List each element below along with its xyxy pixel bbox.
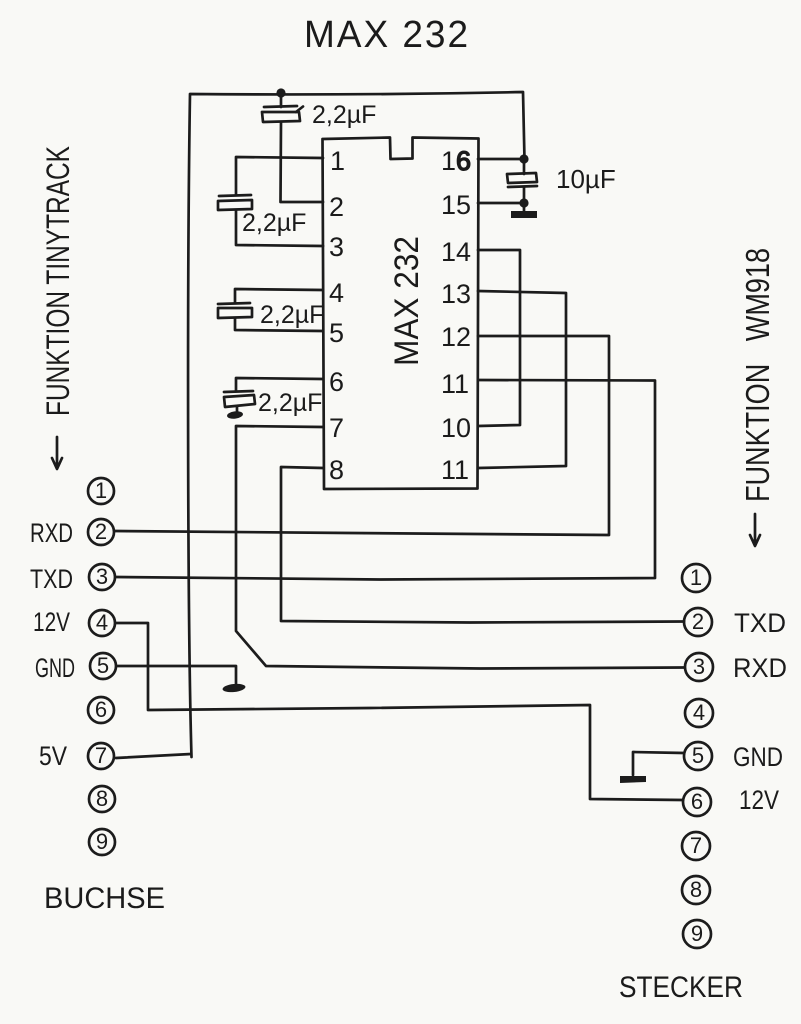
left connector pin 4 [89,610,115,636]
left connector pin 1 [88,478,114,504]
svg-text:8: 8 [329,455,344,485]
svg-text:3: 3 [693,654,705,679]
arrow right down [750,514,760,546]
wire pin 6 to C4 [236,378,323,391]
right connector pin 9 [683,920,711,948]
left connector pin 2 [88,519,114,545]
svg-text:GND: GND [35,653,75,683]
wire pin 7 to right connector RXD (pin 3) [236,426,684,669]
svg-text:2: 2 [692,609,704,634]
svg-text:4: 4 [96,610,108,635]
svg-text:13: 13 [441,279,471,309]
svg-text:5: 5 [329,318,344,348]
svg-text:2,2µF: 2,2µF [312,101,376,129]
svg-text:7: 7 [690,833,702,858]
svg-text:RXD: RXD [30,518,73,548]
right connector pin 7 [682,832,710,860]
svg-text:6: 6 [329,367,344,397]
wire C2 to pin 3 [236,210,323,246]
svg-text:6: 6 [95,697,107,722]
wire pin 12 to left connector RXD (pin 2) [115,336,609,535]
svg-text:5: 5 [692,743,704,768]
wire C3 to pin 5 [235,318,323,331]
svg-text:STECKER: STECKER [619,971,743,1004]
wire C1 to pin 2 [281,122,324,202]
right connector pin 3 [685,653,713,681]
svg-text:2: 2 [95,519,107,544]
right connector pin 1 [682,564,710,592]
ground blob under C4 [236,407,239,412]
svg-text:MAX 232: MAX 232 [388,236,426,366]
svg-text:7: 7 [95,743,107,768]
right connector pin 8 [682,876,710,904]
capacitor C5 10uF [523,159,526,174]
svg-text:2,2µF: 2,2µF [242,209,306,237]
right connector pin 6 [683,788,711,816]
svg-text:BUCHSE: BUCHSE [44,882,165,915]
svg-text:12V: 12V [739,785,779,815]
svg-text:MAX 232: MAX 232 [304,14,470,56]
capacitor C3 2,2uF [218,303,250,304]
left connector pin 8 [89,786,115,812]
svg-text:2: 2 [329,192,344,222]
ground bar right [620,776,646,783]
svg-text:2,2µF: 2,2µF [258,389,322,417]
svg-text:2,2µF: 2,2µF [260,301,324,329]
wire GND left connector pin5 [117,666,236,684]
svg-text:8: 8 [96,786,108,811]
wire VCC top rail with left vertical down to 5V and right drop to pin16 [188,92,524,757]
wire pin 4 to C3 [235,289,323,303]
ground under C5 [523,203,526,212]
svg-text:FUNKTION TINYTRACK: FUNKTION TINYTRACK [40,146,76,416]
left connector pin 9 [89,829,115,855]
svg-text:TXD: TXD [734,608,786,638]
svg-text:3: 3 [96,564,108,589]
arrow left down [52,437,62,469]
svg-text:7: 7 [329,413,344,443]
svg-text:4: 4 [693,700,705,725]
svg-text:10: 10 [441,413,471,443]
wire pin 13 to pin 9 [478,291,566,468]
op-amp U1 MAX232 IC body [323,138,479,490]
right connector pin 5 [684,742,712,770]
svg-text:9: 9 [96,829,108,854]
wire 5V from connector pin7 to rail [116,754,191,758]
svg-text:1: 1 [690,565,702,590]
wire pin 14 to pin 10 [478,250,520,426]
ground blob left [222,683,246,693]
svg-text:6: 6 [456,146,471,176]
capacitor C2 2,2uF [219,195,251,196]
right connector pin 2 [684,608,712,636]
svg-text:14: 14 [441,237,471,267]
svg-text:9: 9 [691,921,703,946]
svg-text:1: 1 [95,478,107,503]
capacitor C4 2,2uF [224,391,253,392]
wire pin 16 stub [478,158,524,161]
left connector pin 6 [88,697,114,723]
node junction dot on top rail [276,88,285,97]
svg-text:12: 12 [441,322,471,352]
node junction dot pin16 [519,154,528,163]
left connector pin 5 [90,653,116,679]
wire pin 8 to right connector TXD (pin 2) [281,467,684,623]
wire GND right connector pin5 [633,752,684,775]
svg-text:TXD: TXD [30,564,73,594]
wire pin 1 to C2 [236,157,323,195]
left connector pin 3 [89,564,115,590]
svg-text:12V: 12V [33,607,70,637]
svg-text:RXD: RXD [733,653,787,683]
svg-text:GND: GND [733,742,783,772]
svg-text:15: 15 [441,190,471,220]
right connector pin 4 [685,699,713,727]
svg-text:5V: 5V [39,741,67,771]
wire pin 15 stub [478,202,524,205]
wire pin 11 to left connector TXD (pin 3) [116,380,655,580]
svg-text:1: 1 [330,146,345,176]
svg-text:11: 11 [441,369,469,399]
svg-text:5: 5 [97,653,109,678]
capacitor C1 2,2uF top [280,93,283,107]
wire 12V left pin4 to right pin6 [116,623,683,800]
left connector pin 7 [88,743,114,769]
svg-text:8: 8 [690,877,702,902]
svg-text:6: 6 [691,789,703,814]
svg-text:4: 4 [329,278,344,308]
svg-text:FUNKTION WM918: FUNKTION WM918 [739,248,776,502]
svg-text:11: 11 [441,455,469,485]
svg-text:3: 3 [329,232,344,262]
svg-text:10µF: 10µF [556,164,616,194]
node junction dot pin15 [519,198,528,207]
